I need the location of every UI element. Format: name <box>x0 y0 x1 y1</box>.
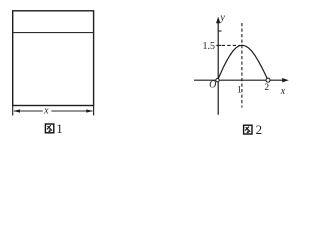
y-axis tick at 2 <box>218 30 221 32</box>
origin open circle <box>216 79 219 82</box>
svg-text:2: 2 <box>264 83 269 93</box>
y-axis arrowhead <box>216 17 220 24</box>
inner horizontal line <box>13 32 93 34</box>
svg-text:1: 1 <box>237 86 242 96</box>
caption glyph 图 (figure 1) <box>45 124 53 133</box>
svg-text:x: x <box>280 86 286 97</box>
right arrowhead <box>86 109 93 112</box>
svg-text:2: 2 <box>256 122 263 137</box>
x-axis arrowhead <box>282 78 289 82</box>
vertical dashed line at x=1 <box>241 23 243 108</box>
left extension line <box>12 106 14 116</box>
svg-text:x: x <box>43 106 49 117</box>
y-axis tick at 1.5 <box>216 44 221 46</box>
right extension line <box>93 106 95 116</box>
svg-text:O: O <box>209 80 216 91</box>
dimension line right segment <box>51 110 92 112</box>
svg-text:1: 1 <box>56 121 63 136</box>
open circle at x=2 <box>266 78 270 82</box>
left arrowhead <box>13 109 20 112</box>
y-axis <box>217 19 219 115</box>
svg-text:1.5: 1.5 <box>203 41 216 52</box>
svg-text:y: y <box>219 12 225 23</box>
rectangle outline (Figure 1 box) <box>13 11 94 106</box>
horizontal dashed line at y=1.5 <box>222 44 240 46</box>
x-axis <box>194 79 287 81</box>
dimension line left segment <box>14 110 43 112</box>
curve arch <box>218 45 269 80</box>
caption glyph 图 (figure 2) <box>244 125 252 134</box>
